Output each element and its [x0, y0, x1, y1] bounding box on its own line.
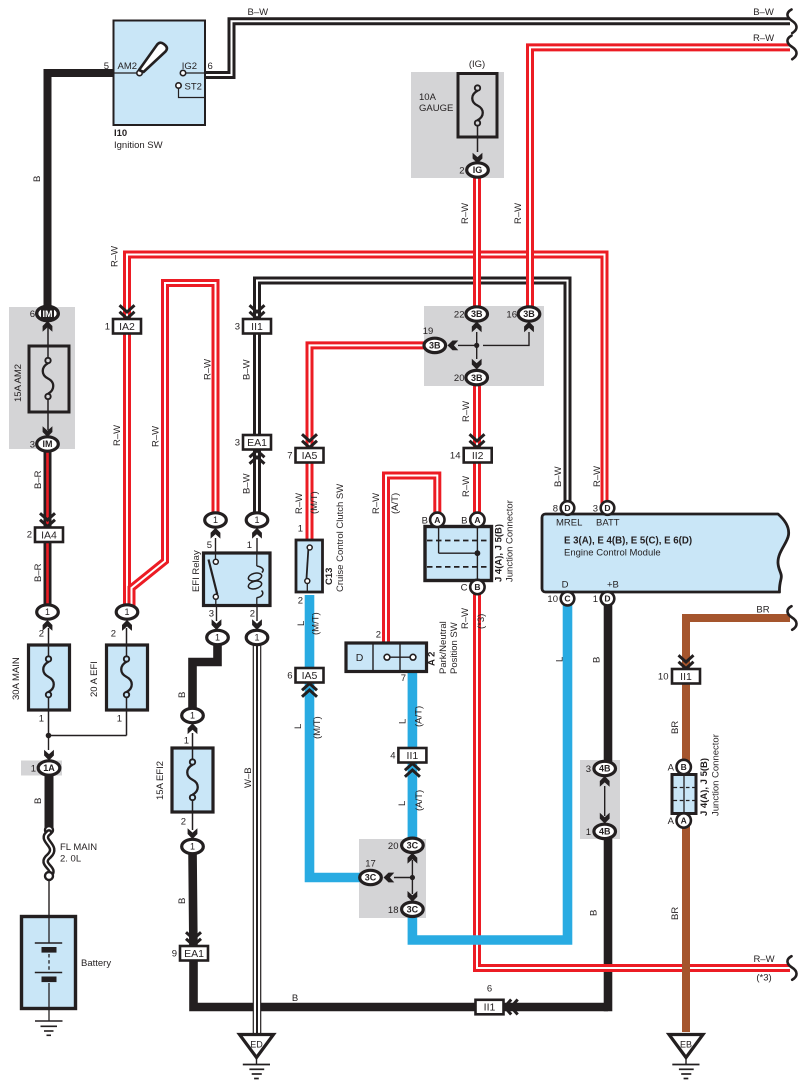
svg-text:2: 2: [111, 629, 116, 640]
junction block shading 3C: [359, 839, 426, 918]
arrow into 3B-20: [472, 359, 482, 370]
svg-text:R–W: R–W: [461, 401, 472, 422]
svg-text:(IG): (IG): [469, 59, 485, 70]
svg-text:L: L: [398, 719, 409, 724]
wire B-W from II1 up across to ECM MREL: [257, 281, 568, 517]
wire R-W relay pin5 loop to splice: [132, 283, 216, 606]
svg-text:C: C: [564, 594, 570, 604]
svg-text:3: 3: [30, 440, 35, 451]
fusible link top ring: [45, 826, 53, 834]
svg-text:B–R: B–R: [33, 470, 44, 489]
svg-text:5: 5: [104, 61, 109, 72]
splice 4B-3: [594, 761, 616, 775]
relay switch contacts: [215, 553, 217, 559]
splice 3B-16: [518, 307, 540, 321]
svg-text:B–W: B–W: [753, 7, 774, 18]
connector II1-3: [243, 319, 271, 334]
svg-text:15A EFI2: 15A EFI2: [155, 761, 166, 800]
connector IA4: [35, 528, 63, 543]
ECM pin 1 D: [601, 592, 615, 606]
chevrons from II1-4: [405, 764, 420, 771]
chevrons into IA4: [40, 520, 55, 527]
svg-text:R–W: R–W: [203, 359, 214, 380]
splice 3C-20: [402, 838, 424, 852]
connector IA5-7: [296, 448, 324, 463]
svg-text:B–W: B–W: [248, 7, 269, 18]
arrow into 3C-18: [408, 891, 418, 902]
svg-text:EA1: EA1: [184, 948, 204, 960]
svg-text:1: 1: [247, 540, 252, 551]
splice 3C-18: [402, 902, 424, 916]
svg-text:3C: 3C: [407, 841, 419, 851]
svg-text:3C: 3C: [365, 873, 377, 883]
svg-text:IA2: IA2: [119, 321, 135, 333]
junction block shading 10A GAUGE: [411, 72, 504, 178]
svg-text:1: 1: [254, 633, 259, 643]
svg-text:1: 1: [215, 633, 220, 643]
svg-text:(A/T): (A/T): [414, 790, 425, 811]
switch C13 contacts: [307, 545, 312, 550]
wire B-W ignition IG2 to top right: [205, 21, 790, 75]
connector EA1-3: [243, 435, 271, 450]
module ECM body: [542, 514, 789, 592]
fuse 10A GAUGE element: [477, 123, 479, 152]
svg-text:(*3): (*3): [756, 973, 771, 984]
ECM pin 3 D: [601, 501, 615, 515]
junction connector pin A left: [430, 513, 444, 527]
wire R-W from IA2 up across to BATT: [127, 255, 605, 609]
svg-text:A: A: [474, 515, 480, 525]
junction connector J4/J5 right box: [672, 775, 696, 814]
svg-text:(A/T): (A/T): [414, 706, 425, 727]
svg-text:1: 1: [190, 711, 195, 721]
junction connector pin A bottom right: [677, 813, 691, 827]
svg-text:(M/T): (M/T): [309, 491, 320, 514]
wire R-W from right edge to 3B-16: [530, 47, 790, 308]
fuse 10A GAUGE box: [458, 74, 497, 138]
svg-text:9: 9: [172, 949, 177, 960]
svg-text:L: L: [293, 724, 304, 729]
splice 1 below relay pin2: [246, 630, 268, 644]
wire R-W gauge fuse to 3B-22: [473, 172, 481, 308]
wire L park/neutral SW to 3C-20: [408, 669, 418, 840]
svg-text:Park/Neutral: Park/Neutral: [438, 621, 449, 674]
svg-text:I10: I10: [114, 128, 127, 139]
svg-text:B: B: [474, 582, 480, 592]
svg-text:4B: 4B: [599, 827, 611, 837]
splice 1 above 20A EFI: [116, 605, 138, 619]
svg-text:B: B: [177, 692, 188, 698]
svg-text:1: 1: [254, 515, 259, 525]
break R-W top right: [787, 36, 796, 60]
svg-text:3B: 3B: [523, 309, 535, 319]
svg-text:II1: II1: [680, 671, 692, 683]
svg-text:R–W: R–W: [371, 493, 382, 514]
svg-text:Junction Connector: Junction Connector: [505, 500, 516, 582]
arrow into IM-6: [43, 321, 53, 332]
svg-text:ED: ED: [250, 1040, 263, 1050]
junction 3B internal wiring: [476, 332, 478, 359]
junction block shading 1A: [21, 761, 62, 776]
svg-text:R–W: R–W: [294, 493, 305, 514]
svg-text:IM: IM: [43, 309, 53, 319]
svg-text:1: 1: [39, 714, 44, 725]
svg-text:EB: EB: [680, 1040, 692, 1050]
switch A2 contacts: [387, 656, 413, 658]
switch C13 body: [296, 540, 323, 592]
svg-text:L: L: [397, 801, 408, 806]
svg-text:R–W: R–W: [112, 425, 123, 446]
svg-text:EA1: EA1: [247, 437, 267, 449]
svg-text:R–W: R–W: [753, 954, 774, 965]
connector IA5-6: [296, 668, 324, 683]
svg-text:10A: 10A: [419, 92, 437, 103]
arrow into IG splice: [473, 153, 483, 164]
break B-W top right: [787, 10, 796, 34]
svg-text:Ignition SW: Ignition SW: [114, 140, 163, 151]
svg-text:2: 2: [181, 817, 186, 828]
svg-text:L: L: [555, 657, 566, 662]
svg-text:B: B: [589, 910, 600, 916]
svg-text:10: 10: [547, 594, 558, 605]
svg-text:(M/T): (M/T): [312, 716, 323, 739]
svg-text:30A MAIN: 30A MAIN: [11, 657, 22, 700]
svg-text:D: D: [564, 503, 570, 513]
svg-text:ST2: ST2: [185, 81, 202, 92]
splice 1 above 30A MAIN: [37, 605, 59, 619]
wire B 1A to fusible link: [45, 772, 54, 828]
svg-text:B–W: B–W: [242, 359, 253, 380]
svg-text:2: 2: [459, 166, 464, 177]
svg-text:3C: 3C: [407, 905, 419, 915]
arrow into splice relay pin5: [211, 528, 221, 539]
svg-text:R–W: R–W: [460, 608, 471, 629]
svg-text:Cruise Control Clutch SW: Cruise Control Clutch SW: [335, 484, 346, 592]
svg-text:IA4: IA4: [41, 529, 57, 541]
svg-text:1: 1: [45, 607, 50, 617]
battery body: [22, 917, 76, 1009]
svg-text:14: 14: [450, 451, 461, 462]
splice 3C-17: [360, 870, 382, 884]
ground ED triangle: [240, 1035, 274, 1058]
svg-text:AM2: AM2: [118, 61, 138, 72]
svg-text:10: 10: [658, 672, 669, 683]
svg-text:3: 3: [209, 609, 214, 620]
chevrons into II1-10: [679, 662, 694, 669]
break BR right: [787, 606, 796, 630]
wire B EFI2 fuse to EA1 and bottom run: [193, 850, 609, 1007]
splice IM-6: [37, 306, 59, 320]
svg-text:2: 2: [27, 530, 32, 541]
relay coil: [256, 553, 258, 566]
wire B-R 15A AM2 to IA4 splice: [44, 449, 52, 605]
svg-text:3: 3: [593, 504, 598, 515]
splice 1 relay pin1: [246, 513, 268, 527]
arrow into IM-3: [43, 426, 53, 437]
arrow from 30A MAIN pin2: [43, 620, 53, 631]
junction connector J4/J5 left internals: [438, 528, 440, 553]
chevrons into II1-3: [250, 312, 265, 319]
fuse 20A EFI box: [107, 645, 148, 710]
svg-text:1: 1: [190, 842, 195, 852]
svg-text:B: B: [177, 898, 188, 904]
pigtail relay pin2: [256, 606, 258, 622]
svg-text:GAUGE: GAUGE: [419, 103, 453, 114]
svg-text:BR: BR: [756, 605, 769, 616]
splice 1A: [38, 761, 60, 775]
svg-text:3: 3: [586, 764, 591, 775]
arrow into splice relay pin1: [252, 528, 262, 539]
svg-text:1: 1: [298, 524, 303, 535]
svg-text:R–W: R–W: [461, 476, 472, 497]
splice 3B-20: [466, 370, 488, 384]
arrow into 4B-3: [600, 776, 610, 787]
wire R-W junction connector A to park/neutral SW: [386, 476, 437, 645]
fusible link bottom ring: [45, 872, 53, 880]
wire R-W 3B-19 to cruise clutch SW: [310, 345, 425, 543]
fuse 30A MAIN box: [29, 645, 70, 710]
svg-text:R–W: R–W: [753, 33, 774, 44]
arrow into 3C-20: [408, 853, 418, 864]
switch I10 IG2 contact: [180, 70, 185, 75]
svg-text:1: 1: [31, 764, 36, 775]
splice 3B-19: [424, 338, 446, 352]
arrow from 20A EFI into splice: [122, 620, 132, 631]
svg-text:(*3): (*3): [476, 614, 487, 629]
fuse 15A EFI2 element: [192, 733, 194, 762]
svg-text:L: L: [296, 621, 307, 626]
fusible link FL MAIN element: [46, 833, 53, 876]
splice IG: [467, 163, 489, 177]
wire L 3C-18 to ECM pin D: [412, 603, 567, 940]
svg-text:R–W: R–W: [513, 203, 524, 224]
svg-text:B: B: [292, 993, 298, 1004]
svg-text:MREL: MREL: [556, 518, 582, 529]
ground ED symbol: [256, 1058, 258, 1065]
switch I10 ST2 contact: [176, 83, 181, 88]
arrow into 3B-19: [448, 341, 459, 351]
svg-text:18: 18: [388, 905, 399, 916]
wire R-W 3B-20 to junction connector A: [473, 384, 481, 515]
svg-text:(A/T): (A/T): [390, 493, 401, 514]
svg-text:C: C: [461, 583, 468, 594]
svg-text:R–W: R–W: [151, 426, 162, 447]
chevrons into IA2: [120, 312, 135, 319]
fuse 15A EFI2 box: [172, 748, 213, 812]
svg-text:EFI Relay: EFI Relay: [191, 550, 202, 592]
svg-text:D: D: [562, 580, 569, 591]
arrow from relay pin3: [212, 619, 222, 630]
svg-text:2: 2: [298, 596, 303, 607]
chevrons into EA1-9: [186, 939, 201, 946]
junction block shading 3B: [424, 306, 544, 386]
node battery feed: [46, 733, 52, 739]
splice 4B-1: [594, 824, 616, 838]
wire W-B relay pin2 to ED ground: [253, 642, 262, 1034]
svg-text:II1: II1: [484, 1002, 496, 1014]
junction block shading 4B: [580, 760, 620, 839]
chevrons from IA5-6: [302, 684, 317, 691]
arrow into 3B-16: [524, 322, 534, 333]
svg-text:B: B: [33, 798, 44, 804]
svg-text:20: 20: [388, 841, 399, 852]
svg-text:1: 1: [124, 607, 129, 617]
svg-text:15A AM2: 15A AM2: [13, 364, 24, 402]
wire B relay pin3 down to EFI2 fuse: [193, 642, 218, 710]
battery internal plates: [48, 918, 50, 943]
svg-text:1: 1: [586, 827, 591, 838]
junction connector pin A right: [470, 513, 484, 527]
svg-text:B: B: [592, 657, 603, 663]
svg-text:1: 1: [105, 322, 110, 333]
svg-text:3B: 3B: [429, 341, 441, 351]
splice 1 relay pin5: [205, 513, 227, 527]
svg-text:3B: 3B: [471, 309, 483, 319]
fuse 30A MAIN element: [48, 628, 50, 659]
splice 1 below relay pin3: [207, 630, 229, 644]
splice 3B-22: [466, 307, 488, 321]
svg-text:R–W: R–W: [460, 203, 471, 224]
switch I10 AM2 contact: [137, 70, 142, 75]
svg-text:2: 2: [250, 609, 255, 620]
svg-text:16: 16: [506, 310, 517, 321]
svg-text:B–W: B–W: [553, 466, 564, 487]
svg-text:B: B: [681, 762, 687, 772]
junction 3C internal wiring: [411, 860, 413, 894]
junction 4B internal wiring: [604, 786, 606, 816]
ECM pin 10 C: [561, 592, 575, 606]
svg-text:IA5: IA5: [302, 450, 318, 462]
svg-text:6: 6: [30, 309, 35, 320]
svg-text:Battery: Battery: [81, 958, 111, 969]
wire B battery to ignition AM2: [48, 73, 114, 308]
junction connector pin B right: [677, 760, 691, 774]
svg-text:17: 17: [365, 859, 376, 870]
svg-text:8: 8: [553, 504, 558, 515]
arrow from EFI2 fuse: [188, 828, 198, 839]
svg-text:1: 1: [184, 736, 189, 747]
battery ground: [48, 1008, 50, 1021]
svg-text:BR: BR: [670, 907, 681, 920]
wire R-W junction connector B to right edge (*3): [477, 591, 790, 968]
svg-text:IA5: IA5: [302, 670, 318, 682]
pigtail FL MAIN to battery: [48, 880, 50, 917]
svg-text:20 A EFI: 20 A EFI: [89, 661, 100, 697]
svg-text:4: 4: [390, 751, 395, 762]
svg-text:B: B: [422, 516, 428, 527]
junction connector pin B bottom: [470, 580, 484, 594]
svg-text:3: 3: [235, 438, 240, 449]
svg-text:A: A: [434, 515, 440, 525]
svg-text:6: 6: [487, 984, 492, 995]
svg-text:II2: II2: [472, 450, 484, 462]
arrow into splice above EFI2: [188, 723, 198, 734]
svg-text:2: 2: [376, 630, 381, 641]
svg-text:7: 7: [401, 673, 406, 684]
svg-text:BR: BR: [670, 721, 681, 734]
svg-text:A: A: [668, 763, 675, 774]
svg-text:W–B: W–B: [243, 767, 254, 788]
svg-text:20: 20: [454, 373, 465, 384]
pigtail splice to relay pin5: [215, 538, 217, 553]
pigtail 20A EFI to node: [49, 735, 127, 737]
svg-text:19: 19: [423, 326, 434, 337]
arrow into 1A: [44, 750, 54, 761]
fuse 15A AM2 box: [29, 346, 69, 412]
svg-text:A 2: A 2: [427, 652, 438, 666]
wire L cruise clutch SW to 3C-17: [310, 595, 362, 878]
svg-text:IG2: IG2: [182, 61, 197, 72]
switch I10 Ignition SW body: [114, 21, 206, 126]
svg-text:3: 3: [235, 322, 240, 333]
arrow from relay pin2: [252, 619, 262, 630]
svg-text:+B: +B: [607, 580, 619, 591]
splice 1 above EFI2: [182, 708, 204, 722]
connector EA1-9: [180, 946, 208, 961]
svg-text:Position SW: Position SW: [449, 622, 460, 674]
svg-text:6: 6: [287, 671, 292, 682]
junction block shading 15A AM2: [9, 307, 75, 449]
svg-text:B–W: B–W: [242, 473, 253, 494]
svg-text:22: 22: [454, 310, 465, 321]
junction connector J4/J5 left box: [425, 527, 492, 581]
svg-text:1A: 1A: [43, 763, 55, 773]
ECM pin 8 D: [561, 501, 575, 515]
switch A2 body: [346, 643, 427, 672]
svg-text:FL MAIN: FL MAIN: [60, 842, 97, 853]
svg-text:IM: IM: [43, 439, 53, 449]
arrow from 20A EFI pin2: [122, 620, 132, 631]
wire BR right edge to EB ground: [686, 618, 790, 1032]
svg-text:1: 1: [117, 714, 122, 725]
splice 1 below EFI2: [182, 839, 204, 853]
svg-text:B: B: [32, 176, 43, 182]
svg-text:3B: 3B: [471, 373, 483, 383]
arrow into 3C-17: [384, 873, 395, 883]
arrow into 4B-1: [600, 813, 610, 824]
pigtail relay pin3: [216, 606, 218, 622]
svg-text:D: D: [604, 503, 610, 513]
svg-text:B: B: [461, 516, 467, 527]
svg-text:Junction Connector: Junction Connector: [711, 734, 722, 816]
pigtail splice to relay pin1: [256, 538, 258, 553]
relay EFI Relay body: [204, 553, 271, 606]
arrow into 3B-22: [472, 322, 482, 333]
svg-text:(M/T): (M/T): [311, 612, 322, 635]
svg-text:J 4(A), J 5(B): J 4(A), J 5(B): [699, 758, 710, 816]
ground EB triangle: [669, 1035, 703, 1058]
pigtail node to 1A: [48, 735, 50, 750]
svg-text:A: A: [681, 816, 687, 826]
svg-text:B–R: B–R: [33, 563, 44, 582]
wire B ECM +B down pt2: [604, 837, 613, 1011]
svg-text:5: 5: [207, 540, 212, 551]
svg-text:R–W: R–W: [110, 246, 121, 267]
svg-text:J 4(A), J 5(B): J 4(A), J 5(B): [494, 524, 505, 582]
svg-text:E 3(A), E 4(B), E 5(C), E 6(D): E 3(A), E 4(B), E 5(C), E 6(D): [564, 536, 692, 547]
svg-text:D: D: [356, 652, 364, 664]
fuse 15A AM2 element: [47, 321, 49, 361]
wire B ECM +B down pt1: [604, 605, 613, 762]
svg-text:R–W: R–W: [592, 466, 603, 487]
svg-text:Engine Control Module: Engine Control Module: [564, 548, 661, 559]
chevrons from EA1-3: [250, 451, 265, 458]
connector IA2: [113, 319, 141, 334]
connector II2: [464, 448, 492, 463]
svg-text:1: 1: [593, 594, 598, 605]
svg-text:C13: C13: [324, 568, 335, 585]
switch I10 lever: [139, 43, 167, 72]
